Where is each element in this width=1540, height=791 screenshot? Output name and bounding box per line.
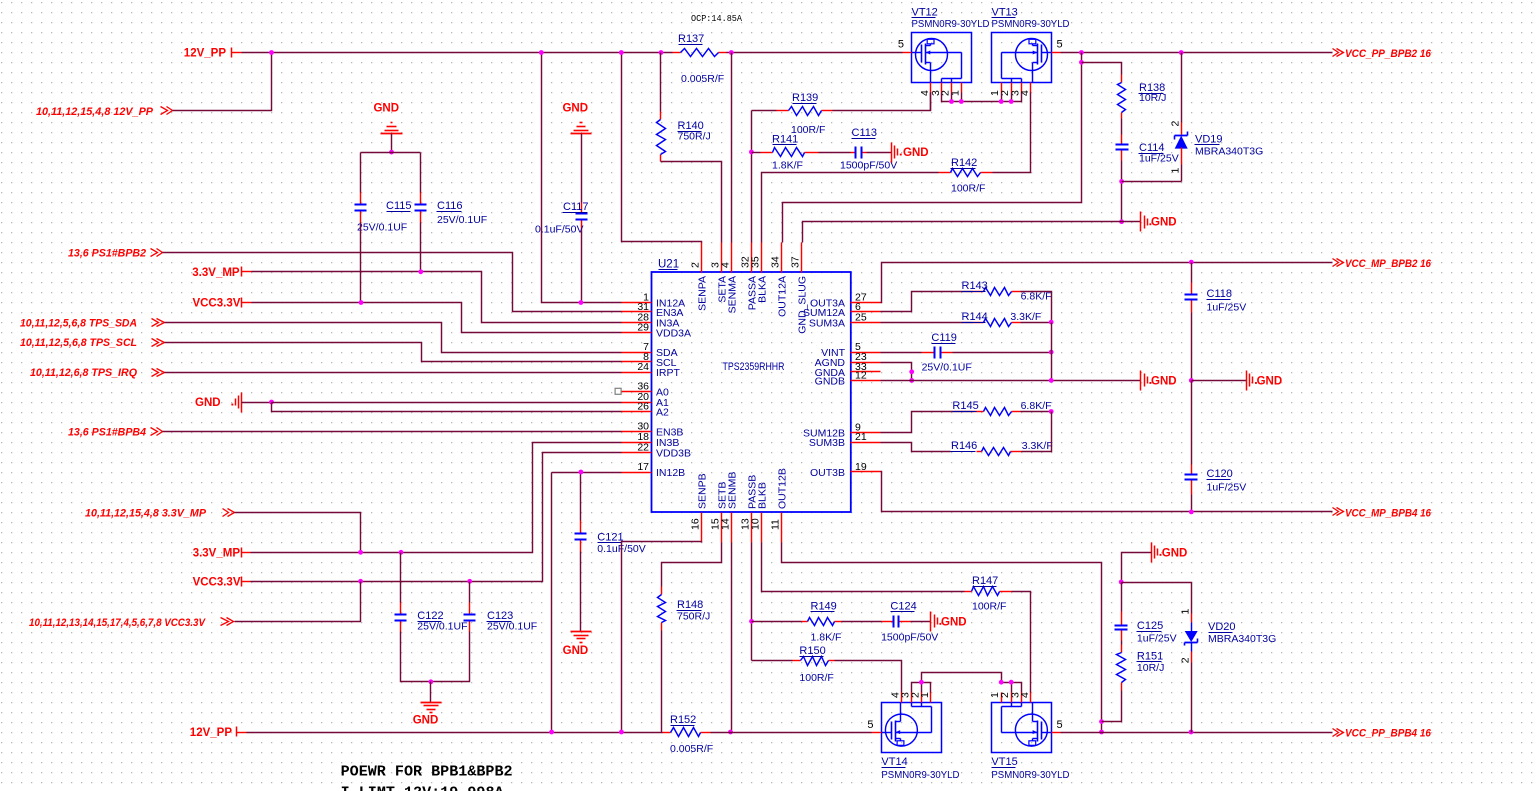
svg-text:R152: R152 — [670, 714, 696, 726]
wire PS1#BPB4 to EN3B — [163, 431, 622, 433]
wire R147 to VT15 pin4 — [1012, 592, 1031, 693]
svg-text:GND: GND — [1151, 217, 1177, 229]
svg-text:26: 26 — [637, 400, 649, 412]
svg-text:12: 12 — [855, 369, 867, 381]
ground GND rot5 — [1246, 371, 1248, 391]
svg-text:R137: R137 — [678, 33, 704, 45]
svg-text:1uF/25V: 1uF/25V — [1137, 633, 1177, 645]
resistor R147 — [965, 591, 972, 593]
svg-text:25V/0.1UF: 25V/0.1UF — [357, 222, 407, 234]
wire gnd to node — [1122, 553, 1152, 583]
wire R142 to VT13 pin4 — [993, 93, 1031, 173]
svg-text:SUM3B: SUM3B — [809, 437, 845, 449]
svg-text:PSMN0R9-30YLD: PSMN0R9-30YLD — [881, 769, 959, 781]
svg-text:3.3V_MP: 3.3V_MP — [193, 547, 241, 559]
svg-text:POEWR FOR BPB1&BPB2: POEWR FOR BPB1&BPB2 — [341, 764, 513, 781]
svg-text:C118: C118 — [1207, 288, 1232, 300]
svg-text:10,11,12,5,6,8 TPS_SCL: 10,11,12,5,6,8 TPS_SCL — [20, 337, 137, 349]
capacitor C113 — [851, 152, 856, 154]
pin 5 VT13 — [1052, 52, 1061, 54]
svg-text:4: 4 — [1019, 692, 1031, 698]
pins U21 bottom — [701, 513, 703, 543]
svg-text:SUM3A: SUM3A — [809, 317, 845, 329]
resistor R137 — [673, 52, 681, 54]
wire GND_SLUG — [803, 222, 1141, 243]
svg-text:GNDB: GNDB — [815, 375, 845, 387]
svg-text:12V_PP: 12V_PP — [184, 48, 227, 60]
svg-text:1.8K/F: 1.8K/F — [811, 632, 842, 644]
svg-text:VDD3B: VDD3B — [656, 447, 691, 459]
svg-text:VDD3A: VDD3A — [656, 327, 691, 339]
diode VD19 — [1181, 53, 1183, 123]
wire SUM12A to R143 — [881, 292, 973, 312]
resistor R151 — [1121, 641, 1123, 645]
pins U21 left — [622, 302, 652, 304]
wire SUM3B to R146 — [881, 443, 951, 452]
resistor R138 — [1121, 73, 1123, 75]
pins VT12 bottom — [930, 83, 932, 93]
svg-text:IRPT: IRPT — [656, 367, 681, 379]
svg-text:VD19: VD19 — [1195, 134, 1223, 146]
svg-text:BLKB: BLKB — [757, 482, 769, 509]
wire C119 right — [953, 352, 1052, 354]
capacitor C114 — [1121, 135, 1123, 145]
capacitor C123 — [469, 582, 471, 603]
wire C116 bottom — [420, 223, 422, 272]
wire gnd1 stem — [391, 134, 393, 153]
svg-text:1.8K/F: 1.8K/F — [772, 160, 803, 172]
wire VCC3.3V to VDD3A — [242, 302, 252, 304]
transistor VT12 — [912, 33, 972, 83]
svg-text:25V/0.1UF: 25V/0.1UF — [437, 214, 487, 226]
svg-text:R139: R139 — [792, 92, 818, 104]
svg-text:10R/J: 10R/J — [1137, 662, 1164, 674]
svg-text:C124: C124 — [890, 601, 916, 613]
svg-text:R148: R148 — [677, 599, 703, 611]
svg-text:SENMB: SENMB — [727, 472, 739, 509]
capacitor C124 — [882, 621, 894, 623]
svg-text:C125: C125 — [1137, 620, 1163, 632]
wire C118 bottom — [1191, 313, 1193, 381]
wire rail to IN12A riser — [542, 53, 622, 303]
svg-text:1: 1 — [1170, 168, 1182, 174]
wire R139 left bend — [752, 110, 777, 112]
svg-text:100R/F: 100R/F — [972, 601, 1006, 613]
svg-text:R141: R141 — [772, 134, 798, 146]
capacitor C118 — [1191, 263, 1193, 283]
svg-text:19: 19 — [855, 461, 867, 473]
wire 3.3V_MP row to IN3B — [242, 552, 251, 554]
svg-text:PSMN0R9-30YLD: PSMN0R9-30YLD — [992, 18, 1070, 30]
wire C124 to GND — [911, 621, 931, 623]
capacitor C125 — [1121, 583, 1123, 612]
svg-text:VCC_MP_BPB2 16: VCC_MP_BPB2 16 — [1345, 258, 1432, 270]
wire 3.3V_MP to IN3A — [242, 271, 252, 273]
svg-text:1: 1 — [919, 692, 931, 698]
pins VT14 top — [901, 693, 903, 703]
resistor R142 — [939, 172, 951, 174]
resistor R148 — [661, 587, 663, 595]
wire VT15 to port — [1061, 732, 1333, 734]
svg-text:1uF/25V: 1uF/25V — [1139, 153, 1179, 165]
resistor R140 — [660, 53, 662, 112]
pins VT13 bottom — [1001, 83, 1003, 93]
svg-text:25: 25 — [855, 311, 867, 323]
svg-text:R143: R143 — [962, 280, 988, 292]
svg-text:3.3K/F: 3.3K/F — [1022, 440, 1053, 452]
ground GND bottom left — [430, 682, 432, 703]
wire C122 C123 bottom — [401, 632, 470, 682]
svg-text:5: 5 — [1057, 719, 1063, 731]
junction — [269, 50, 274, 55]
svg-text:0.1uF/50V: 0.1uF/50V — [535, 224, 583, 236]
wire gnd2 stem — [581, 134, 583, 203]
wire R148 to rail — [661, 631, 663, 733]
wire C114 bottom — [1121, 161, 1123, 222]
svg-text:GND: GND — [562, 103, 588, 115]
svg-text:1500pF/50V: 1500pF/50V — [840, 160, 897, 172]
resistor R145 — [973, 411, 984, 413]
port VCC_PP_BPB4 — [1333, 729, 1339, 737]
svg-text:VT13: VT13 — [992, 7, 1018, 19]
svg-text:750R/J: 750R/J — [677, 611, 710, 623]
svg-text:1uF/25V: 1uF/25V — [1207, 482, 1247, 494]
svg-text:R147: R147 — [972, 575, 998, 587]
svg-text:0.005R/F: 0.005R/F — [681, 73, 724, 85]
svg-text:OCP:14.85A: OCP:14.85A — [691, 14, 743, 24]
wire C121 to GND — [580, 552, 582, 632]
svg-text:14: 14 — [720, 518, 732, 530]
svg-text:6.8K/F: 6.8K/F — [1021, 400, 1052, 412]
svg-text:22: 22 — [637, 441, 649, 453]
capacitor C120 — [1191, 381, 1193, 465]
svg-text:C119: C119 — [931, 332, 956, 344]
svg-text:17: 17 — [637, 461, 649, 473]
wire C115 bottom — [360, 223, 362, 303]
pins U21 right — [851, 302, 881, 304]
resistor R146 — [977, 451, 982, 453]
svg-text:VD20: VD20 — [1208, 621, 1236, 633]
svg-text:IN12B: IN12B — [656, 467, 685, 479]
resistor R139 — [777, 110, 789, 112]
capacitor C121 — [580, 473, 582, 521]
capacitor C117 — [581, 203, 583, 214]
resistor R150 — [752, 660, 793, 662]
svg-text:21: 21 — [855, 431, 867, 443]
wire SENPB riser — [701, 542, 703, 543]
wire R139 to VT12 pin4 — [833, 93, 931, 111]
wire PASSB column — [751, 543, 753, 661]
svg-text:MBRA340T3G: MBRA340T3G — [1208, 633, 1276, 645]
svg-text:100R/F: 100R/F — [951, 183, 985, 195]
ground GND rot left — [241, 393, 243, 413]
svg-text:13,6 PS1#BPB2: 13,6 PS1#BPB2 — [68, 247, 146, 259]
svg-text:BLKA: BLKA — [757, 276, 769, 303]
wire OUT3B to rail — [881, 472, 1333, 512]
svg-text:SENPA: SENPA — [697, 276, 709, 311]
svg-text:GND: GND — [941, 616, 967, 628]
svg-text:PSMN0R9-30YLD: PSMN0R9-30YLD — [991, 769, 1069, 781]
svg-text:OUT12A: OUT12A — [777, 276, 789, 317]
svg-text:25V/0.1UF: 25V/0.1UF — [922, 362, 972, 374]
svg-text:2: 2 — [690, 262, 702, 268]
svg-text:0.005R/F: 0.005R/F — [670, 743, 713, 755]
svg-text:12V_PP: 12V_PP — [190, 727, 233, 739]
svg-text:U21: U21 — [658, 259, 679, 271]
svg-text:VCC3.3V: VCC3.3V — [193, 576, 241, 588]
port VCC_MP_BPB4 — [1333, 508, 1339, 516]
svg-text:C113: C113 — [852, 127, 877, 139]
wire R140 to SETA — [661, 162, 722, 243]
svg-text:100R/F: 100R/F — [799, 672, 833, 684]
svg-text:R142: R142 — [951, 157, 977, 169]
wire OUT12A riser — [783, 53, 1082, 243]
svg-text:C121: C121 — [597, 532, 623, 544]
ground GND C121 — [571, 631, 592, 633]
wire rail to VT14 — [711, 732, 872, 734]
svg-text:5: 5 — [1057, 39, 1063, 51]
svg-text:OUT3B: OUT3B — [810, 467, 845, 479]
svg-text:TPS2359RHHR: TPS2359RHHR — [723, 361, 785, 373]
svg-text:16: 16 — [690, 518, 702, 530]
svg-text:10,11,12,5,6,8 TPS_SDA: 10,11,12,5,6,8 TPS_SDA — [20, 318, 137, 330]
svg-text:34: 34 — [770, 256, 782, 268]
svg-text:A2: A2 — [656, 406, 669, 418]
wire rail R137 to VT12 — [727, 52, 903, 54]
svg-text:37: 37 — [789, 256, 801, 268]
svg-text:25V/0.1UF: 25V/0.1UF — [417, 621, 467, 633]
svg-text:C117: C117 — [563, 201, 588, 213]
wire drain bus top — [930, 93, 932, 111]
svg-text:10,11,12,15,4,8 3.3V_MP: 10,11,12,15,4,8 3.3V_MP — [85, 508, 207, 520]
svg-text:35: 35 — [750, 256, 762, 268]
svg-text:13,6 PS1#BPB4: 13,6 PS1#BPB4 — [68, 426, 146, 438]
svg-text:R149: R149 — [811, 601, 837, 613]
svg-text:GND: GND — [1162, 547, 1188, 559]
svg-text:C116: C116 — [437, 200, 462, 212]
wire 12V_PP bottom rail — [237, 732, 247, 734]
svg-text:4: 4 — [720, 262, 732, 268]
wire VCC3.3V port riser — [235, 582, 361, 622]
diode VD20 — [1122, 583, 1192, 614]
svg-text:1uF/25V: 1uF/25V — [1207, 302, 1247, 314]
ground GND rot2 — [1140, 212, 1142, 232]
resistor R144 — [973, 322, 984, 324]
capacitor C116 — [420, 193, 422, 205]
wire rail to SENPA — [622, 53, 702, 243]
wire BLKB to R147 — [762, 543, 965, 592]
svg-text:GND: GND — [1257, 375, 1283, 387]
pins U21 top — [701, 243, 703, 273]
svg-text:24: 24 — [637, 361, 649, 373]
svg-text:MBRA340T3G: MBRA340T3G — [1195, 146, 1263, 158]
wire 3.3V_MP port riser — [235, 513, 361, 553]
svg-text:1500pF/50V: 1500pF/50V — [881, 632, 938, 644]
svg-text:R151: R151 — [1137, 651, 1163, 663]
svg-text:I_LIMT 12V:19.998A: I_LIMT 12V:19.998A — [341, 785, 504, 791]
capacitor C119 — [922, 352, 935, 354]
wire R150 to VT14 pin4 — [835, 661, 902, 693]
wire col GND branch — [1192, 380, 1247, 382]
svg-text:10R/J: 10R/J — [1139, 92, 1166, 104]
svg-text:VT12: VT12 — [912, 7, 938, 19]
wire C119 row — [881, 352, 922, 354]
wire SENMB riser — [731, 543, 733, 733]
svg-text:10,11,12,6,8 TPS_IRQ: 10,11,12,6,8 TPS_IRQ — [30, 367, 137, 379]
svg-text:11: 11 — [770, 519, 782, 530]
resistor R149 — [752, 621, 802, 623]
svg-text:VT14: VT14 — [881, 756, 907, 768]
wire TPS_IRQ — [165, 372, 622, 374]
wire SUM12B to R145 — [881, 412, 973, 433]
wire C113 to GND — [867, 152, 892, 154]
capacitor C115 — [360, 193, 362, 205]
svg-text:750R/J: 750R/J — [678, 131, 711, 143]
svg-text:10,11,12,15,4,8 12V_PP: 10,11,12,15,4,8 12V_PP — [36, 106, 154, 118]
wire OUT3A to rail — [881, 263, 1333, 303]
svg-text:VCC3.3V: VCC3.3V — [192, 298, 240, 310]
svg-text:1: 1 — [1180, 609, 1192, 615]
transistor VT13 — [992, 33, 1052, 83]
svg-text:GND: GND — [903, 147, 929, 159]
svg-text:SENPB: SENPB — [697, 473, 709, 509]
wire C120 bottom — [1191, 495, 1193, 512]
pin 5 VT15 — [1052, 732, 1061, 734]
svg-text:5: 5 — [867, 719, 873, 731]
svg-text:GND: GND — [413, 715, 439, 727]
wire AGND riser — [881, 363, 912, 381]
wire R146 right — [1022, 412, 1052, 452]
junction R137 right — [729, 50, 734, 55]
svg-text:2: 2 — [1180, 657, 1192, 663]
svg-text:C120: C120 — [1207, 468, 1233, 480]
svg-text:SENMA: SENMA — [727, 276, 739, 313]
svg-text:10,11,12,13,14,15,17,4,5,6,7,8: 10,11,12,13,14,15,17,4,5,6,7,8 VCC3.3V — [29, 617, 206, 629]
wire R138 branch — [1082, 63, 1122, 73]
wire R143 R144 C119 to GNDB — [1051, 323, 1053, 381]
svg-text:3.3V_MP: 3.3V_MP — [192, 267, 240, 279]
svg-text:5: 5 — [898, 39, 904, 51]
wire VCC3.3V row to VDD3B — [242, 581, 251, 583]
wire SENMA riser — [731, 53, 733, 243]
wire GNDB row to GND — [881, 380, 1141, 382]
svg-text:OUT12B: OUT12B — [777, 468, 789, 509]
wire gnd to A1 A2 — [242, 402, 272, 404]
port VCC_PP_BPB2 — [1333, 49, 1339, 57]
wire IN12B riser — [552, 472, 622, 474]
svg-text:C115: C115 — [386, 200, 411, 212]
pin 5 VT12 — [903, 52, 912, 54]
wire BLKA R142 — [762, 173, 939, 243]
wire VD19 to C114 — [1122, 181, 1182, 183]
svg-text:GND: GND — [373, 103, 399, 115]
svg-text:PSMN0R9-30YLD: PSMN0R9-30YLD — [912, 18, 990, 30]
port VCC_MP_BPB2 — [1333, 259, 1339, 267]
junction R137 left — [659, 50, 664, 55]
wire TPS_SCL — [165, 343, 622, 362]
wire C115 C116 top — [361, 152, 421, 154]
svg-text:25V/0.1UF: 25V/0.1UF — [487, 621, 537, 633]
svg-text:3.3K/F: 3.3K/F — [1010, 311, 1041, 323]
wire drain bus bottom — [912, 683, 931, 693]
wire R143 right — [1021, 292, 1052, 323]
svg-text:R144: R144 — [962, 311, 988, 323]
resistor R141 — [761, 152, 773, 154]
wire R144 right — [1021, 322, 1052, 324]
resistor R152 — [663, 732, 671, 734]
svg-text:R150: R150 — [799, 645, 825, 657]
svg-text:VCC_PP_BPB2 16: VCC_PP_BPB2 16 — [1345, 48, 1432, 60]
svg-text:GND: GND — [195, 397, 221, 409]
node A0 nc square — [615, 388, 621, 394]
junction R152 right — [728, 730, 733, 735]
svg-text:10: 10 — [750, 518, 762, 530]
svg-text:VCC_MP_BPB4 16: VCC_MP_BPB4 16 — [1345, 508, 1432, 520]
resistor R143 — [973, 291, 984, 293]
ground GND rot4 — [1140, 371, 1142, 391]
ground GND rot1 — [891, 143, 893, 163]
wire R151 to rail — [1102, 693, 1122, 722]
wire R145 right — [1021, 411, 1052, 413]
ground GND rot3 — [930, 612, 932, 632]
wire 12V_PP rail — [232, 52, 242, 54]
wire PS1#BPB2 to EN3A — [163, 253, 622, 312]
svg-text:GND: GND — [1151, 375, 1177, 387]
capacitor C122 — [400, 553, 402, 603]
svg-text:VCC_PP_BPB4 16: VCC_PP_BPB4 16 — [1345, 728, 1432, 740]
svg-text:VT15: VT15 — [991, 756, 1017, 768]
svg-text:2: 2 — [1170, 121, 1182, 127]
svg-text:29: 29 — [637, 321, 649, 333]
wire PASSA riser — [751, 111, 753, 243]
wire TPS_SDA — [165, 323, 622, 353]
wire OUT12B — [782, 543, 1102, 733]
wire C117 bottom — [581, 231, 583, 303]
wire port 12V_PP riser — [173, 53, 272, 111]
wire SUM3A to R144 — [881, 322, 973, 324]
pins VT15 top — [1001, 693, 1003, 703]
svg-text:R145: R145 — [952, 400, 978, 412]
junction PASSA R141 — [749, 150, 754, 155]
transistor VT15 — [992, 703, 1052, 753]
wire VT13 to port — [1061, 52, 1333, 54]
svg-text:R146: R146 — [951, 440, 977, 452]
svg-text:GND_SLUG: GND_SLUG — [796, 276, 808, 334]
pin 5 VT14 — [872, 732, 882, 734]
svg-text:GND: GND — [563, 645, 589, 657]
transistor VT14 — [882, 703, 942, 753]
op-amp U21 body — [652, 272, 851, 512]
wire SETB to R148 — [662, 543, 722, 587]
